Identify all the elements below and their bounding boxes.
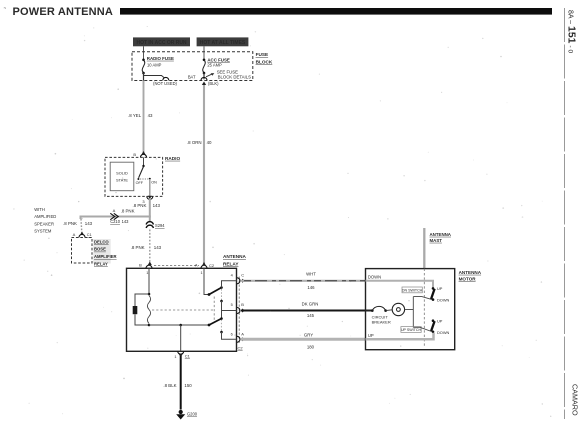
wire ground bus — [149, 324, 209, 326]
svg-text:43: 43 — [148, 113, 153, 118]
svg-text:B: B — [133, 152, 136, 157]
svg-text:C1: C1 — [185, 354, 191, 359]
svg-text:10 AMP: 10 AMP — [147, 63, 162, 68]
svg-text:.8 YEL: .8 YEL — [128, 113, 142, 118]
wire .8 PNK 143 from radio — [132, 196, 160, 222]
svg-text:143: 143 — [154, 245, 162, 250]
svg-text:A: A — [113, 208, 116, 213]
wire .8 PNK 143 to relay — [131, 230, 162, 266]
svg-text:HOT IN ACC OR RUN: HOT IN ACC OR RUN — [136, 40, 186, 46]
node lower pivot — [208, 324, 211, 327]
svg-text:C2: C2 — [238, 345, 244, 350]
svg-text:UP: UP — [368, 333, 374, 338]
svg-text:4: 4 — [231, 273, 233, 277]
svg-text:~: ~ — [4, 6, 7, 11]
antenna motor M1 body — [366, 269, 455, 350]
relay upper contact arm — [209, 288, 222, 295]
svg-text:C2: C2 — [209, 263, 215, 268]
svg-text:AMPLIFIED: AMPLIFIED — [34, 214, 56, 219]
svg-text:WHT: WHT — [306, 271, 316, 276]
svg-text:C210: C210 — [110, 219, 121, 224]
svg-text:1: 1 — [174, 355, 176, 359]
wire WHT 146 — [241, 271, 366, 290]
solid state module — [110, 162, 134, 191]
wire DK GRN 145 — [241, 301, 368, 318]
page number 8A-151-0 (rotated) — [566, 10, 578, 53]
wire to ground pin — [180, 325, 182, 351]
svg-text:BOSE: BOSE — [94, 247, 106, 252]
svg-text:40: 40 — [207, 140, 212, 145]
node upper pivot — [208, 293, 211, 296]
wire tee to pin B right — [222, 310, 237, 312]
fuse block label — [256, 52, 273, 64]
circuit breaker CB1 — [366, 306, 391, 324]
svg-text:OFF: OFF — [136, 181, 144, 185]
pin 3 of radio — [147, 196, 153, 199]
svg-text:143: 143 — [85, 221, 93, 226]
svg-text:AMPLIFIER: AMPLIFIER — [94, 254, 117, 259]
svg-text:ANTENNA: ANTENNA — [430, 232, 452, 237]
wire feed stub to acc fuse — [203, 46, 205, 59]
svg-text:143: 143 — [153, 203, 161, 208]
svg-text:BREAKER: BREAKER — [372, 320, 391, 325]
antenna relay K2 body — [127, 268, 237, 351]
wire coil left branch — [135, 294, 149, 306]
note WITH AMPLIFIED SPEAKER SYSTEM — [34, 207, 56, 234]
CAMARO label (rotated) — [571, 384, 580, 416]
svg-text:HOT AT ALL TIMES: HOT AT ALL TIMES — [200, 40, 246, 46]
pin B top — [139, 263, 152, 275]
svg-text:6: 6 — [231, 333, 233, 337]
svg-text:.8 ORN: .8 ORN — [187, 140, 202, 145]
connector C2 right face — [238, 277, 240, 345]
pin 6 A — [231, 332, 246, 343]
title POWER ANTENNA — [4, 6, 114, 19]
svg-text:1: 1 — [146, 271, 148, 275]
antenna relay K2 label — [223, 254, 247, 266]
connector C2 top face — [154, 265, 199, 267]
fuse block dashed outline — [132, 52, 253, 81]
fuse ACC FUSE 25 AMP — [203, 57, 230, 74]
svg-text:DOWN: DOWN — [368, 274, 381, 279]
svg-text:UP SWITCH: UP SWITCH — [401, 328, 422, 332]
armature linkage vertical dashed — [213, 297, 215, 323]
wire .8 BLK 150 — [163, 356, 192, 410]
svg-text:.8 PNK: .8 PNK — [131, 245, 145, 250]
svg-text:1: 1 — [201, 271, 203, 275]
svg-text:BLOCK: BLOCK — [256, 59, 273, 64]
radio on/off switch — [143, 157, 145, 166]
svg-text:A: A — [195, 262, 198, 267]
svg-text:ANTENNA: ANTENNA — [459, 270, 482, 275]
node coil bottom — [148, 324, 151, 327]
svg-text:UP: UP — [437, 319, 443, 324]
pin 5 B — [231, 302, 246, 314]
wire contact to pin C — [222, 281, 237, 288]
svg-text:RADIO: RADIO — [165, 156, 180, 161]
relay coil winding — [147, 296, 150, 324]
right margin rule — [564, 8, 566, 419]
svg-text:(NOT USED): (NOT USED) — [153, 81, 177, 86]
feed header HOT AT ALL TIMES — [197, 37, 249, 46]
svg-text:C: C — [241, 272, 244, 277]
svg-text:145: 145 — [307, 313, 315, 318]
svg-text:CAMARO: CAMARO — [571, 384, 580, 416]
antenna mast — [424, 228, 451, 269]
pin A top — [195, 262, 215, 275]
node mid contact upper — [220, 300, 223, 303]
dn switch label — [402, 287, 423, 293]
header rule bar — [120, 8, 552, 15]
svg-text:MOTOR: MOTOR — [459, 276, 477, 281]
wire .8 YEL 43 — [128, 81, 153, 155]
svg-text:180: 180 — [307, 345, 315, 350]
wire stub to not-used terminal — [144, 76, 165, 79]
node coil top — [148, 293, 151, 296]
note SEE FUSE BLOCK DETAILS — [206, 70, 251, 80]
svg-text:MAST: MAST — [430, 238, 443, 243]
svg-text:UP: UP — [437, 286, 443, 291]
node lowest contact — [220, 331, 223, 334]
wire motor to switches — [405, 297, 414, 328]
svg-text:G200: G200 — [187, 412, 198, 417]
resistor block in relay — [133, 306, 138, 314]
delco bose amplifier relay K1 — [72, 232, 117, 266]
relay lower contact arm — [209, 319, 222, 326]
svg-text:WITH: WITH — [34, 207, 45, 212]
svg-text:143: 143 — [122, 219, 130, 224]
wire .8 ORN 40 — [187, 85, 212, 264]
svg-text:5: 5 — [231, 303, 233, 307]
node upper contact — [220, 286, 223, 289]
node ground tee — [179, 324, 182, 327]
svg-text:BLOCK DETAILS: BLOCK DETAILS — [218, 75, 251, 80]
pin 1 bottom C1 — [174, 351, 190, 359]
wire radio fuse output — [143, 73, 145, 81]
svg-text:.8 PNK: .8 PNK — [63, 221, 77, 226]
wire coil feed — [148, 268, 150, 294]
svg-text:(BLK): (BLK) — [208, 81, 219, 86]
wire feed stub to radio fuse — [143, 46, 145, 59]
pin 4 C — [231, 272, 246, 283]
contact gap dashed lower — [220, 320, 222, 331]
terminal BAT — [188, 73, 219, 86]
up switch contacts — [413, 319, 449, 335]
armature linkage dashed — [152, 309, 214, 311]
wire pnk horizontal run — [81, 216, 151, 218]
svg-text:DELCO: DELCO — [94, 239, 109, 244]
svg-text:SPEAKER: SPEAKER — [34, 221, 54, 226]
svg-text:B: B — [241, 302, 244, 307]
contact gap dashed upper — [221, 289, 223, 300]
ground G200 — [176, 410, 198, 420]
svg-text:ON: ON — [151, 180, 157, 184]
wire up feed inside motor — [366, 333, 434, 340]
inline connector C210 — [110, 208, 134, 224]
splice S294 — [146, 222, 165, 229]
svg-text:DK GRN: DK GRN — [302, 301, 319, 306]
svg-text:FUSE: FUSE — [256, 52, 269, 57]
node lower engaged contact — [220, 317, 223, 320]
svg-text:DOWN: DOWN — [437, 298, 450, 303]
svg-text:RELAY: RELAY — [223, 261, 239, 266]
svg-text:RADIO FUSE: RADIO FUSE — [147, 56, 174, 61]
svg-text:BAT: BAT — [188, 75, 196, 80]
svg-text:DOWN: DOWN — [437, 330, 450, 335]
antenna motor label — [459, 270, 482, 282]
svg-text:146: 146 — [307, 285, 315, 290]
radio U1 — [105, 152, 180, 204]
wire GRY 180 — [241, 332, 366, 349]
wire mid contact bus — [221, 301, 223, 319]
svg-text:SOLID: SOLID — [116, 170, 128, 175]
terminal (not used) — [153, 77, 177, 86]
svg-text:A: A — [73, 232, 76, 237]
svg-text:S294: S294 — [155, 223, 165, 228]
svg-text:25 AMP: 25 AMP — [207, 63, 222, 68]
svg-text:.8 BLK: .8 BLK — [163, 383, 176, 388]
svg-text:SYSTEM: SYSTEM — [34, 229, 52, 234]
motor armature — [386, 303, 405, 315]
wire pnk drop to bose relay — [63, 216, 93, 236]
wire contact to pin A right — [222, 332, 237, 339]
svg-text:B: B — [139, 263, 142, 268]
svg-text:A: A — [241, 332, 244, 337]
svg-text:.8 PNK: .8 PNK — [132, 203, 146, 208]
up switch label — [401, 327, 422, 333]
fuse RADIO FUSE 10 AMP — [142, 56, 174, 74]
feed header HOT IN ACC OR RUN — [133, 37, 190, 46]
svg-text:C1: C1 — [87, 233, 92, 237]
svg-text:RELAY: RELAY — [94, 261, 108, 266]
mast linkage dashed — [423, 269, 425, 347]
wire down feed inside motor — [366, 281, 434, 288]
svg-text:DN SWITCH: DN SWITCH — [402, 289, 423, 293]
svg-text:GRY: GRY — [304, 332, 313, 337]
svg-text:150: 150 — [184, 383, 192, 388]
svg-text:POWER ANTENNA: POWER ANTENNA — [13, 6, 114, 18]
svg-text:ANTENNA: ANTENNA — [223, 254, 247, 259]
wire switch feed from pin A — [204, 268, 209, 294]
wire below resistor — [135, 314, 149, 325]
dn switch contacts — [413, 286, 449, 302]
svg-text:.8 PNK: .8 PNK — [121, 209, 135, 214]
